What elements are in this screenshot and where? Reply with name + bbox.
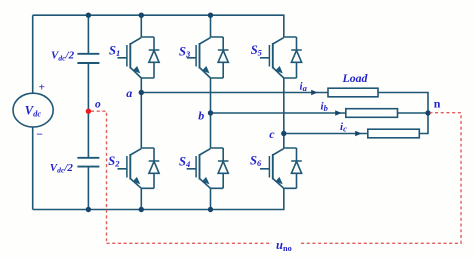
svg-text:ia: ia	[300, 80, 308, 93]
svg-text:ic: ic	[340, 121, 347, 134]
svg-text:Load: Load	[342, 71, 369, 85]
svg-text:n: n	[434, 97, 441, 111]
svg-text:ib: ib	[321, 101, 328, 114]
svg-text:c: c	[269, 127, 275, 141]
svg-text:a: a	[126, 86, 132, 100]
svg-text:−: −	[36, 129, 43, 141]
svg-text:b: b	[198, 108, 204, 122]
svg-text:o: o	[95, 99, 101, 111]
svg-text:+: +	[39, 82, 45, 94]
